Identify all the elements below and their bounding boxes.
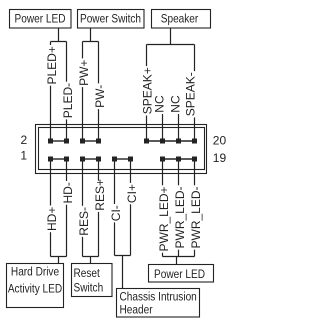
wire SPEAK+ (pin column 7, top): [146, 45, 148, 142]
svg-text:NC: NC: [168, 95, 182, 113]
wire CI- (pin column 5, bottom): [114, 159, 116, 256]
pin group link SPEAK top row: [147, 140, 195, 142]
svg-text:Speaker: Speaker: [161, 13, 199, 26]
pin pair link PLED top row: [51, 140, 67, 142]
wire PWR_LED- (pin column 9, bottom): [178, 159, 180, 257]
wire bracket PWR_LED group to Power LED box: [163, 257, 195, 265]
wire CI+ (pin column 6, bottom): [130, 159, 132, 256]
wire HD- (pin column 2, bottom): [66, 159, 68, 257]
pin pair link RES bottom row: [83, 158, 99, 160]
svg-text:Switch: Switch: [74, 282, 104, 295]
wire bracket CI pair to Chassis Intrusion Header box: [115, 256, 131, 289]
wire bracket HD pair to Hard Drive Activity LED box: [51, 257, 67, 264]
label RES-: [77, 206, 91, 237]
svg-text:RES-: RES-: [77, 207, 91, 236]
pin square top row col7 (SPEAK+): [144, 139, 149, 144]
connector outer rectangle: [36, 125, 207, 174]
svg-text:PW+: PW+: [77, 60, 91, 86]
svg-text:1: 1: [20, 149, 27, 163]
svg-text:HD+: HD+: [45, 207, 59, 231]
label HD+: [45, 206, 59, 233]
label PWR_LED- (column 9): [173, 185, 187, 249]
svg-text:PWR_LED+: PWR_LED+: [157, 186, 171, 251]
box Power LED (top): [10, 10, 72, 29]
box Hard Drive Activity LED (bottom): [7, 264, 64, 308]
label SPEAK-: [183, 71, 197, 117]
label PLED-: [61, 82, 75, 120]
svg-text:SPEAK-: SPEAK-: [183, 72, 197, 116]
pin square bottom row col9 (PWR_LED-): [176, 157, 181, 162]
pin square bottom row col8 (PWR_LED+): [160, 157, 165, 162]
svg-text:Reset: Reset: [74, 267, 100, 280]
label NC (column 8): [152, 95, 166, 113]
svg-text:PLED-: PLED-: [61, 83, 75, 118]
svg-text:Power Switch: Power Switch: [80, 13, 141, 26]
pin square top row col10 (SPEAK-): [192, 139, 197, 144]
label CI-: [109, 204, 123, 222]
svg-text:20: 20: [213, 134, 227, 148]
label PLED+: [45, 45, 59, 86]
wire PLED+ (pin column 1, top): [50, 42, 52, 142]
label CI+: [125, 183, 139, 204]
pin square top row col9 (NC): [176, 139, 181, 144]
label NC (column 9): [168, 95, 182, 113]
svg-text:Header: Header: [120, 304, 153, 317]
box Power LED (bottom): [149, 265, 214, 283]
box Chassis Intrusion Header (bottom): [117, 289, 200, 318]
svg-text:NC: NC: [152, 95, 166, 113]
svg-text:CI-: CI-: [109, 205, 123, 221]
svg-text:Chassis Intrusion: Chassis Intrusion: [120, 291, 197, 304]
pin square bottom row col1 (HD+): [48, 157, 53, 162]
box Power Switch (top): [78, 10, 145, 29]
label PWR_LED+: [157, 185, 171, 252]
label PWR_LED- (column 10): [189, 185, 203, 249]
label PW+: [77, 58, 91, 87]
svg-text:Power LED: Power LED: [154, 268, 205, 281]
label PW-: [93, 83, 107, 109]
pin group link PWR_LED bottom row: [163, 158, 195, 160]
wire bracket from Power Switch box to PW+/PW-: [83, 28, 99, 42]
pin square bottom row col3 (RES-): [80, 157, 85, 162]
connector inner rectangle: [39, 128, 205, 170]
svg-text:Power LED: Power LED: [15, 13, 66, 26]
wire RES+ (pin column 4, bottom): [98, 159, 100, 257]
pin square top row col2 (PLED-): [64, 139, 69, 144]
svg-text:2: 2: [21, 133, 28, 147]
wire NC (pin column 8, top): [162, 114, 164, 141]
wire PW- (pin column 4, top): [98, 42, 100, 142]
wire PW+ (pin column 3, top): [82, 42, 84, 142]
wire NC (pin column 9, top): [178, 114, 180, 141]
svg-text:CI+: CI+: [125, 184, 139, 203]
svg-text:PWR_LED-: PWR_LED-: [173, 186, 187, 248]
pin number 1 (left): [20, 149, 27, 163]
pin number 2 (left): [21, 133, 28, 147]
wire RES- (pin column 3, bottom): [82, 159, 84, 257]
wire bracket RES pair to Reset Switch box: [83, 257, 99, 264]
wire SPEAK- (pin column 10, top): [194, 45, 196, 142]
pin square bottom row col6 (CI+): [128, 157, 133, 162]
pin square bottom row col10 (PWR_LED-): [192, 157, 197, 162]
pin square bottom row col4 (RES+): [96, 157, 101, 162]
svg-text:HD-: HD-: [61, 182, 75, 203]
pin pair link CI bottom row: [115, 158, 131, 160]
pin number 19 (right): [213, 151, 227, 165]
pin square top row col1 (PLED+): [48, 139, 53, 144]
svg-text:PLED+: PLED+: [45, 46, 59, 84]
wire PWR_LED+ (pin column 8, bottom): [162, 159, 164, 257]
wire bracket from Power LED box to PLED+/PLED-: [51, 28, 67, 42]
svg-text:RES+: RES+: [93, 179, 107, 211]
label HD-: [61, 181, 75, 205]
label RES+: [93, 179, 107, 212]
svg-text:Hard Drive: Hard Drive: [11, 266, 59, 279]
pin pair link HD bottom row: [51, 158, 67, 160]
box Speaker (top): [152, 10, 211, 29]
svg-text:PWR_LED-: PWR_LED-: [189, 186, 203, 248]
pin square bottom row col5 (CI-): [112, 157, 117, 162]
label SPEAK+: [140, 66, 154, 115]
wire PLED- (pin column 2, top): [66, 42, 68, 142]
svg-text:Activity LED: Activity LED: [8, 283, 62, 296]
wire HD+ (pin column 1, bottom): [50, 159, 52, 257]
wire bracket from Speaker box to SPEAK+/SPEAK-: [147, 28, 195, 45]
pin square bottom row col2 (HD-): [64, 157, 69, 162]
wire PWR_LED- (pin column 10, bottom): [194, 159, 196, 257]
pin square top row col8 (NC): [160, 139, 165, 144]
pin square top row col3 (PW+): [80, 139, 85, 144]
pin pair link PW top row: [83, 140, 99, 142]
pin square top row col4 (PW-): [96, 139, 101, 144]
box Reset Switch (bottom): [72, 264, 113, 297]
pin number 20 (right): [213, 134, 227, 148]
svg-text:PW-: PW-: [93, 85, 107, 108]
svg-text:19: 19: [213, 151, 227, 165]
